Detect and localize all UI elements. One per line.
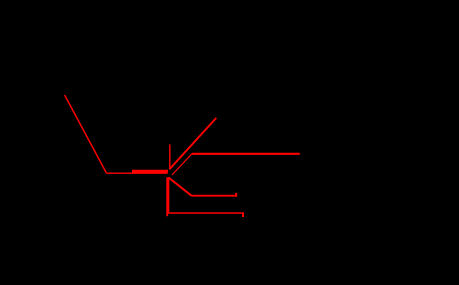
wire: long horizontal to the right bbox=[192, 153, 300, 155]
wire: middle horizontal bbox=[192, 195, 238, 197]
wire: thick diagonal up-right from junction bbox=[169, 118, 216, 169]
wire: thick horizontal overlay into junction bbox=[132, 170, 168, 173]
wire: thick vertical below junction bbox=[166, 177, 169, 213]
wire: bottom horizontal bbox=[167, 212, 244, 214]
wire: diagonal down-right from junction bbox=[169, 178, 192, 196]
wire: small tick below bottom-left corner bbox=[166, 213, 168, 216]
wire: thin horizontal into junction bbox=[107, 172, 168, 174]
wire: vertical stub above junction bbox=[169, 145, 171, 170]
wire: tick up at middle horizontal end bbox=[235, 193, 237, 197]
wire: upper-left diagonal bbox=[65, 95, 107, 173]
wire: thin diagonal up-right from junction bbox=[172, 154, 192, 175]
wire: tick down at bottom horizontal end bbox=[242, 213, 244, 217]
